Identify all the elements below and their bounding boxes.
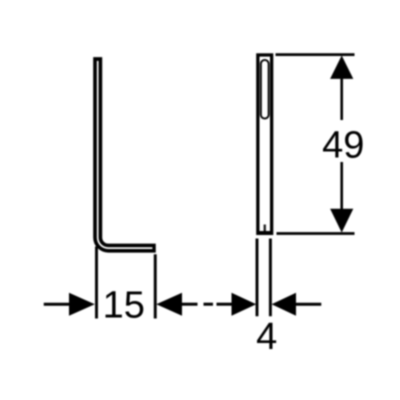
- svg-text:49: 49: [322, 125, 364, 167]
- svg-text:15: 15: [103, 285, 145, 327]
- svg-text:4: 4: [256, 316, 277, 358]
